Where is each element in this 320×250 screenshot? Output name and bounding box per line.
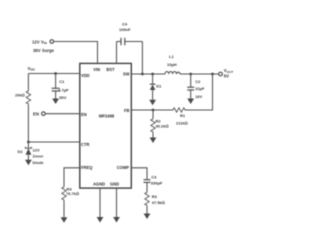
wire AGND stub: [99, 188, 101, 217]
svg-text:211kΩ: 211kΩ: [176, 120, 188, 125]
svg-text:FB: FB: [124, 108, 130, 113]
capacitor C4 wires: [117, 41, 122, 43]
svg-text:10µH: 10µH: [167, 62, 177, 67]
wire GND stub: [116, 188, 118, 217]
svg-text:20kΩ: 20kΩ: [15, 93, 25, 98]
wire EN: [45, 113, 80, 115]
svg-text:36V Surge: 36V Surge: [33, 48, 55, 53]
svg-text:L1: L1: [169, 54, 174, 59]
svg-text:40.2kΩ: 40.2kΩ: [156, 123, 169, 128]
ground under R2: [150, 138, 157, 144]
resistor R5 20k: [26, 90, 30, 105]
ground under GND: [113, 217, 120, 223]
svg-text:GND: GND: [110, 182, 119, 187]
ground under AGND: [97, 217, 104, 223]
zener diode D2: [27, 142, 29, 148]
svg-text:COMP: COMP: [117, 165, 130, 170]
svg-text:R1: R1: [180, 113, 186, 118]
node CTR junction: [27, 141, 30, 144]
capacitor C1: [55, 74, 57, 89]
node D1 junction: [151, 73, 154, 76]
wire R1 to FB pin: [131, 109, 172, 111]
resistor R1: [172, 108, 186, 112]
svg-text:AGND: AGND: [93, 182, 105, 187]
capacitor C3: [144, 179, 151, 181]
resistor R3: [145, 192, 149, 207]
ground under C1: [52, 99, 59, 105]
svg-text:EN: EN: [81, 112, 87, 117]
svg-text:16V: 16V: [195, 94, 202, 99]
svg-text:D1: D1: [156, 83, 162, 88]
node C2 junction: [189, 73, 192, 76]
svg-text:330pF: 330pF: [151, 181, 163, 186]
svg-text:FREQ: FREQ: [81, 165, 93, 170]
node C1 junction: [54, 72, 57, 75]
input terminal 12V VIN: [50, 40, 54, 44]
wire CTR: [28, 141, 79, 143]
svg-text:BST: BST: [106, 67, 115, 72]
svg-text:5V: 5V: [224, 74, 229, 79]
svg-text:4.7µF: 4.7µF: [58, 87, 69, 92]
node R2 junction: [152, 109, 155, 112]
ground under R3: [144, 214, 151, 220]
node SW-BST junction: [141, 73, 144, 76]
svg-text:47.5kΩ: 47.5kΩ: [152, 200, 165, 205]
ground under D1: [149, 100, 156, 106]
svg-text:C4: C4: [122, 22, 128, 27]
wire VDD rail: [28, 73, 79, 75]
node FB tap junction: [211, 73, 214, 76]
svg-text:EN: EN: [33, 112, 39, 117]
wire BST stub riser: [116, 42, 118, 64]
wire BST cap to SW node: [141, 42, 143, 75]
svg-text:R3: R3: [152, 194, 158, 199]
svg-text:VDD: VDD: [81, 73, 90, 78]
svg-text:100nF: 100nF: [119, 27, 131, 32]
EN terminal: [42, 112, 46, 116]
svg-text:SW: SW: [123, 72, 130, 77]
svg-text:VDD: VDD: [28, 66, 36, 72]
inductor L1: [165, 72, 180, 74]
wire COMP: [131, 168, 147, 180]
svg-text:76.7kΩ: 76.7kΩ: [66, 191, 79, 196]
ground under C2: [187, 99, 194, 105]
resistor R4: [62, 186, 66, 201]
wire FREQ: [64, 168, 80, 186]
svg-text:MP2498: MP2498: [99, 114, 115, 119]
svg-text:D2: D2: [18, 149, 24, 154]
svg-text:Diode: Diode: [33, 160, 45, 165]
svg-text:VIN: VIN: [93, 67, 100, 72]
ground under R4: [61, 217, 68, 223]
svg-text:C3: C3: [151, 174, 157, 179]
output terminal VOUT: [219, 72, 223, 76]
wire SW line: [131, 73, 165, 75]
svg-text:50V: 50V: [59, 95, 66, 100]
svg-text:22µF: 22µF: [195, 86, 205, 91]
IC U1 MP2498 outline: [80, 63, 132, 188]
svg-text:CTR: CTR: [81, 142, 89, 147]
resistor R2: [152, 110, 154, 118]
svg-text:C2: C2: [195, 79, 201, 84]
wire VIN input to VIN pin: [54, 42, 98, 64]
svg-text:C1: C1: [59, 79, 65, 84]
wire left rail lower: [27, 105, 29, 142]
svg-text:12V VIN: 12V VIN: [32, 39, 48, 45]
wire left rail upper: [27, 74, 29, 91]
svg-text:Zener: Zener: [33, 154, 44, 159]
wire FB riser: [186, 74, 213, 110]
ground under zener: [25, 160, 32, 166]
capacitor C4: [120, 38, 122, 45]
capacitor C2: [190, 74, 192, 87]
svg-text:12V: 12V: [33, 148, 40, 153]
wire L1 to output: [180, 73, 219, 75]
diode D1: [152, 74, 154, 84]
